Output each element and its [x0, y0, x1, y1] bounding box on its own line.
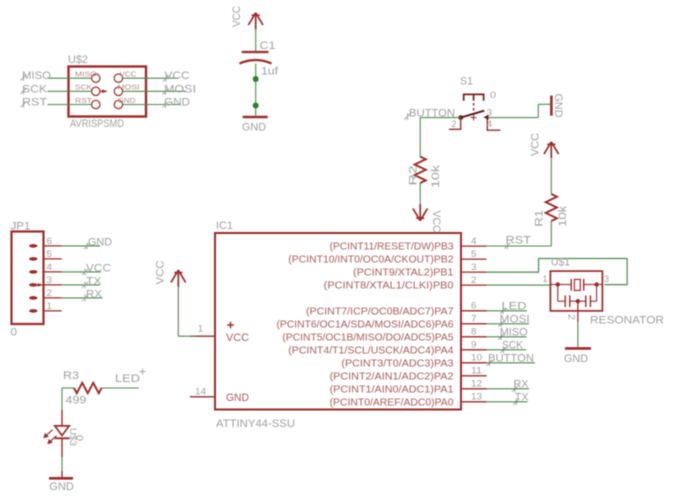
svg-text:C1: C1: [260, 40, 276, 52]
svg-text:(PCINT6/OC1A/SDA/MOSI/ADC6)PA6: (PCINT6/OC1A/SDA/MOSI/ADC6)PA6: [277, 319, 454, 330]
svg-text:LED: LED: [115, 373, 140, 385]
svg-text:GND: GND: [226, 392, 249, 404]
svg-text:7: 7: [471, 314, 477, 325]
svg-text:1: 1: [47, 301, 53, 312]
svg-text:4: 4: [47, 262, 53, 273]
svg-text:2: 2: [47, 288, 53, 299]
svg-text:MISO: MISO: [75, 70, 97, 79]
svg-text:6: 6: [471, 301, 477, 312]
svg-text:RST: RST: [75, 96, 92, 105]
svg-text:VCC: VCC: [86, 262, 111, 274]
svg-text:R1: R1: [534, 210, 546, 227]
svg-text:VCC: VCC: [430, 211, 442, 233]
svg-text:10: 10: [471, 353, 482, 364]
svg-text:(PCINT9/XTAL2)PB1: (PCINT9/XTAL2)PB1: [353, 268, 454, 279]
svg-text:10k: 10k: [557, 205, 569, 227]
svg-text:6: 6: [47, 236, 53, 247]
svg-text:SCK: SCK: [75, 83, 92, 92]
svg-text:9: 9: [471, 340, 477, 351]
svg-text:8: 8: [471, 327, 477, 338]
svg-text:GND: GND: [564, 353, 588, 365]
svg-text:RST: RST: [22, 97, 47, 109]
svg-text:GND: GND: [88, 236, 112, 248]
svg-text:ATTINY44-SSU: ATTINY44-SSU: [216, 418, 295, 430]
svg-text:0: 0: [490, 90, 496, 101]
svg-text:VCC: VCC: [226, 332, 249, 344]
svg-text:5: 5: [47, 249, 53, 260]
svg-text:RST: RST: [506, 234, 532, 246]
svg-text:U$2: U$2: [68, 54, 88, 66]
svg-text:BUTTON: BUTTON: [409, 107, 455, 119]
svg-text:1uf: 1uf: [261, 66, 279, 78]
svg-text:(PCINT5/OC1B/MISO/DO/ADC5)PA5: (PCINT5/OC1B/MISO/DO/ADC5)PA5: [282, 332, 454, 343]
svg-text:2: 2: [452, 119, 457, 130]
svg-text:3: 3: [471, 262, 477, 273]
svg-text:S1: S1: [460, 76, 473, 88]
svg-text:1: 1: [198, 324, 203, 335]
svg-text:1: 1: [543, 274, 548, 285]
svg-text:(PCINT3/T0/ADC3)PA3: (PCINT3/T0/ADC3)PA3: [341, 358, 454, 369]
svg-text:(PCINT7/ICP/OC0B/ADC7)PA7: (PCINT7/ICP/OC0B/ADC7)PA7: [306, 306, 454, 317]
svg-text:2: 2: [471, 275, 477, 286]
svg-text:RX: RX: [86, 288, 103, 300]
svg-text:GND: GND: [242, 122, 266, 134]
svg-text:4: 4: [487, 119, 493, 130]
svg-text:(PCINT0/AREF/ADC0)PA0: (PCINT0/AREF/ADC0)PA0: [330, 397, 454, 408]
svg-text:VCC: VCC: [231, 6, 243, 27]
svg-text:TX: TX: [86, 275, 102, 287]
svg-text:IC1: IC1: [216, 220, 233, 232]
svg-text:MISO: MISO: [22, 70, 51, 82]
svg-text:12: 12: [471, 379, 482, 390]
svg-text:(PCINT8/XTAL1/CLKI)PB0: (PCINT8/XTAL1/CLKI)PB0: [324, 281, 454, 292]
svg-text:4: 4: [471, 236, 477, 247]
svg-text:VCC: VCC: [155, 260, 167, 284]
svg-text:13: 13: [471, 392, 482, 403]
svg-text:MOSI: MOSI: [164, 84, 196, 96]
svg-text:(PCINT1/AIN0/ADC1)PA1: (PCINT1/AIN0/ADC1)PA1: [330, 384, 454, 395]
svg-text:VCC: VCC: [120, 70, 138, 79]
svg-text:VCC: VCC: [530, 133, 542, 156]
svg-text:RESONATOR: RESONATOR: [590, 314, 664, 326]
svg-text:0: 0: [74, 435, 85, 441]
svg-text:GND: GND: [49, 481, 74, 493]
svg-text:MOSI: MOSI: [118, 83, 140, 92]
svg-text:(PCINT2/AIN1/ADC2)PA2: (PCINT2/AIN1/ADC2)PA2: [330, 371, 454, 382]
svg-text:GND: GND: [118, 96, 137, 105]
svg-text:R3: R3: [63, 370, 79, 382]
svg-text:14: 14: [195, 387, 206, 398]
svg-text:3: 3: [487, 108, 493, 119]
svg-text:SCK: SCK: [22, 84, 48, 96]
svg-text:(PCINT10/INT0/OC0A/CKOUT)PB2: (PCINT10/INT0/OC0A/CKOUT)PB2: [288, 255, 454, 266]
svg-text:3: 3: [47, 275, 53, 286]
svg-text:499: 499: [65, 395, 86, 407]
svg-text:(PCINT4/T1/SCL/USCK/ADC4)PA4: (PCINT4/T1/SCL/USCK/ADC4)PA4: [288, 345, 454, 356]
svg-text:10k: 10k: [430, 164, 442, 188]
svg-text:(PCINT11/RESET/DW)PB3: (PCINT11/RESET/DW)PB3: [330, 242, 454, 253]
svg-text:3: 3: [604, 274, 609, 285]
svg-text:R2: R2: [408, 166, 420, 186]
svg-text:U$1: U$1: [551, 256, 570, 268]
svg-text:0: 0: [11, 327, 18, 339]
svg-text:11: 11: [471, 366, 482, 377]
svg-text:GND: GND: [552, 94, 564, 118]
svg-text:5: 5: [471, 249, 477, 260]
svg-text:AVRISPSMD: AVRISPSMD: [70, 118, 124, 130]
svg-text:2: 2: [566, 314, 577, 320]
